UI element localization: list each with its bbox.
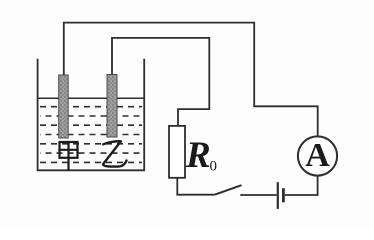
wire: electrode 甲 to ammeter top	[64, 23, 318, 137]
liquid surface	[38, 97, 145, 99]
svg-text:A: A	[305, 137, 330, 174]
wire: battery to ammeter bottom	[285, 176, 318, 195]
wire: R0 bottom to switch	[177, 178, 214, 195]
electrode 甲 (left)	[59, 75, 68, 138]
label 乙	[103, 141, 127, 166]
electrode 乙 (right)	[107, 75, 117, 138]
battery: short plate (-)	[282, 188, 285, 202]
svg-text:0: 0	[210, 159, 218, 175]
ammeter A	[298, 136, 337, 175]
wire: switch contact to battery	[240, 194, 276, 196]
liquid dashes	[40, 107, 142, 163]
switch S (open blade)	[215, 185, 242, 195]
beaker	[38, 59, 145, 171]
wire: electrode 乙 to resistor R0 top	[112, 38, 209, 126]
resistor R0	[169, 126, 185, 178]
label 甲	[60, 142, 78, 170]
svg-text:R: R	[185, 135, 211, 176]
battery: long plate (+)	[277, 182, 279, 209]
